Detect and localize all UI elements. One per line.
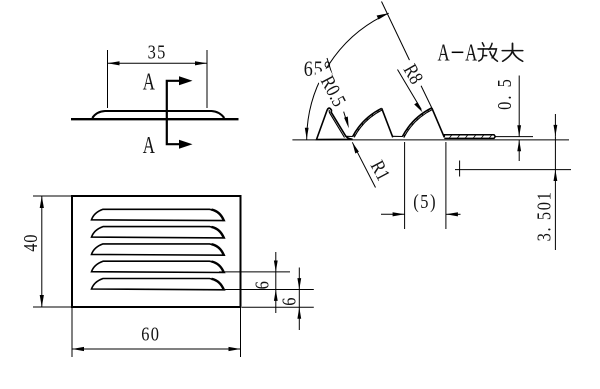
65deg dimension arc: [307, 13, 389, 140]
svg-text:A: A: [143, 70, 155, 95]
arrow R8 (points down-right): [414, 102, 422, 112]
extension line right of dim 35: [206, 50, 208, 108]
dim 3.501 upper shaft: [554, 114, 556, 136]
arrow right of dim 35: [195, 61, 207, 65]
section arrow upper (points right): [179, 76, 193, 85]
louver 2 right-end curl: [212, 227, 224, 238]
louver 5 right-end curl: [212, 279, 224, 290]
tooth 2 ramp outer (R8): [353, 108, 382, 136]
louver 4 right-end curl: [212, 262, 224, 273]
leader line from louver 5: [219, 289, 314, 291]
dim 0.5 lower shaft: [518, 140, 520, 161]
arrow at arc bottom (down): [305, 128, 309, 139]
arrow top of dim 40: [40, 196, 44, 208]
title char FANG (drawn): [478, 43, 497, 61]
extension line bottom of dim 40: [33, 306, 72, 308]
65deg edge extension line lower segment: [421, 85, 432, 108]
arrow left of dim 60: [72, 347, 84, 351]
arrow left of (5) pointing right: [393, 212, 405, 216]
sheet baseline (side view): [71, 118, 239, 120]
leader R8: [398, 70, 422, 110]
louver 3: [92, 244, 225, 255]
text R8 (rotated, white backed): [397, 56, 430, 91]
title char DA (drawn): [502, 43, 522, 61]
arrow 3.501 upper (down): [554, 125, 558, 136]
section arrow lower (points right): [179, 140, 193, 149]
valley flat 2: [393, 135, 403, 137]
svg-text:35: 35: [148, 41, 167, 63]
svg-text:6: 6: [251, 281, 273, 289]
arrow above first 6 (down): [274, 261, 278, 272]
title dash: [452, 51, 464, 53]
svg-text:60: 60: [141, 323, 160, 345]
louver 2: [92, 227, 225, 238]
strip top reference line: [495, 136, 533, 138]
section cut line A-A upper: [167, 81, 184, 119]
arrow R1 (points up-left): [352, 142, 359, 153]
arrow above second 6 (down): [297, 278, 301, 289]
tooth 2 ramp inner: [354, 110, 382, 138]
extension line right of dim 60: [240, 307, 242, 357]
extension line left of dim 35: [107, 50, 109, 108]
leader R1: [352, 142, 375, 187]
svg-text:A: A: [465, 41, 477, 66]
strip hatching: [449, 135, 492, 139]
arrow right of dim 60: [229, 347, 241, 351]
ramp 2 hatching: [354, 110, 378, 137]
extension line left of dim 60: [71, 307, 73, 357]
dim 0.5 upper shaft: [518, 76, 520, 137]
arrow right of (5) pointing left: [446, 212, 458, 216]
R8 centre line: [455, 169, 571, 171]
arrow R0.5 (points down-right): [344, 117, 349, 129]
arrow 0.5 lower (up): [517, 140, 521, 151]
svg-text:A: A: [438, 41, 450, 66]
leader R0.5: [327, 58, 348, 124]
dimension line 40: [41, 196, 43, 307]
dim line first 6: [275, 252, 277, 313]
arrow at arc top (tangent up-right): [377, 13, 389, 19]
flat strip outline: [444, 135, 495, 139]
louver 5: [92, 279, 225, 290]
dim 3.501 lower shaft: [554, 170, 556, 250]
ramp 3 hatching: [404, 110, 429, 137]
arrow below first 6 (up): [274, 290, 278, 301]
svg-text:40: 40: [19, 234, 41, 252]
raised bump profile: [92, 111, 224, 118]
dim 3.501 middle shaft: [554, 136, 556, 169]
vent face rectangle: [72, 196, 241, 307]
text R0.5 (rotated, white backed): [313, 66, 354, 117]
louver 1: [92, 209, 225, 220]
dim line (5) left part: [381, 213, 405, 215]
dim line second 6: [298, 268, 300, 331]
dimension line 35: [108, 62, 208, 64]
dimension line 60: [72, 348, 241, 350]
extension line top of dim 40: [33, 195, 72, 197]
R8 centre cross tick: [459, 161, 461, 177]
tooth 3 ramp inner: [404, 109, 433, 137]
rect bottom extension line: [242, 306, 314, 308]
tooth 1 inner edge line: [329, 110, 344, 138]
detail baseline: [292, 139, 569, 141]
arrow 0.5 upper (down): [517, 125, 521, 136]
louver 3 right-end curl: [212, 244, 224, 255]
valley flat 1: [346, 135, 353, 137]
arrow 3.501 lower (up): [554, 170, 558, 181]
tooth 1 outline: [317, 108, 353, 139]
svg-text:(5): (5): [413, 190, 437, 213]
arrow bottom of dim 40: [40, 295, 44, 307]
louver 1 right-end curl: [212, 210, 224, 221]
65deg edge extension line upper segment: [382, 2, 410, 62]
svg-text:0. 5: 0. 5: [493, 77, 515, 110]
dim line (5) right part: [446, 213, 461, 215]
louver 4: [92, 261, 225, 272]
extension line left of (5): [404, 142, 406, 229]
tooth 2 drop edge: [382, 108, 393, 137]
arrow below second 6 (up): [297, 307, 301, 318]
svg-text:3. 501: 3. 501: [533, 191, 555, 242]
arrow left of dim 35: [108, 61, 120, 65]
leader line from louver 4: [219, 271, 290, 273]
extension line right of (5): [445, 142, 447, 229]
tooth 3 drop edge: [432, 108, 445, 137]
tooth 3 ramp outer (R8): [402, 108, 432, 137]
svg-text:A: A: [143, 134, 155, 159]
section cut line A-A lower: [167, 119, 184, 144]
svg-text:6: 6: [278, 298, 300, 306]
